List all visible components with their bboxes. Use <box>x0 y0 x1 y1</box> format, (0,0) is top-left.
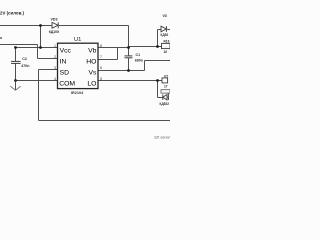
svg-text:10: 10 <box>164 50 168 54</box>
svg-text:680n: 680n <box>135 59 143 63</box>
svg-text:КД52: КД52 <box>161 33 169 37</box>
wire SD vertical <box>38 70 40 121</box>
wire COM rail <box>16 80 58 82</box>
svg-text:Vcc: Vcc <box>60 47 72 54</box>
wire low diode horizontal <box>158 97 164 99</box>
svg-text:C1: C1 <box>136 53 141 57</box>
diode VD3 <box>52 22 58 28</box>
wire Vs jog vertical <box>144 61 146 71</box>
capacitor C2 <box>11 61 21 63</box>
wire IN to pin 2 <box>38 58 58 60</box>
wire C2 top lead <box>15 48 17 62</box>
resistor R bottom-right <box>162 78 168 83</box>
wire bootstrap vertical top to Vb <box>128 26 130 48</box>
svg-text:VD3: VD3 <box>51 18 58 22</box>
wire VD3 cathode to bootstrap corner <box>59 25 129 27</box>
node +12V/Vcc junction <box>39 24 42 27</box>
svg-text:8: 8 <box>100 44 102 48</box>
svg-text:7: 7 <box>100 55 102 59</box>
svg-text:5: 5 <box>100 77 102 81</box>
wire IN jog vertical <box>37 45 39 59</box>
svg-text:Vb: Vb <box>88 47 97 54</box>
svg-text:U1: U1 <box>74 37 81 43</box>
node Vb gate junction <box>156 45 159 48</box>
svg-text:6: 6 <box>100 66 102 70</box>
capacitor C1 <box>125 56 133 58</box>
wire IN input upper <box>0 44 38 46</box>
wire LO rail pin5 <box>98 80 162 82</box>
svg-text:C2: C2 <box>22 57 27 61</box>
node C2 top junction <box>14 46 17 49</box>
node C1/Vs junction <box>127 69 130 72</box>
svg-text:IN: IN <box>60 58 67 65</box>
svg-text:SD senal: SD senal <box>154 136 170 140</box>
wire C2 bottom lead <box>15 63 17 80</box>
svg-text:КД522: КД522 <box>160 102 170 106</box>
svg-text:LO: LO <box>87 81 96 88</box>
ground <box>10 81 20 91</box>
wire C1 top lead <box>128 46 130 56</box>
wire top diode out <box>167 29 170 31</box>
wire top FET source line <box>145 60 171 62</box>
resistor box lower right <box>161 90 170 93</box>
node COM/ground junction <box>14 79 17 82</box>
svg-text:470n: 470n <box>21 64 29 68</box>
svg-text:4: 4 <box>54 77 56 81</box>
svg-text:2: 2 <box>54 55 56 59</box>
diode VD top-right <box>161 26 166 32</box>
svg-text:HO: HO <box>86 58 96 65</box>
svg-text:1: 1 <box>54 44 56 48</box>
wire HO pin7 <box>98 59 118 61</box>
wire top diode feed vertical <box>157 30 159 47</box>
svg-text:IR2104: IR2104 <box>71 91 84 95</box>
wire Vs rail <box>98 70 145 72</box>
svg-text:КД105: КД105 <box>49 30 59 34</box>
svg-text:SD: SD <box>60 70 70 77</box>
svg-text:3: 3 <box>54 66 56 70</box>
node LO gate junction <box>156 79 159 82</box>
junction dots <box>14 24 159 82</box>
wire SD bottom rail <box>39 120 171 122</box>
wire Vcc rail <box>16 47 58 49</box>
svg-text:R16: R16 <box>164 40 170 44</box>
svg-text:Vs: Vs <box>88 70 97 77</box>
wire top diode feed horizontal <box>158 29 162 31</box>
svg-text:VD: VD <box>163 14 168 18</box>
wire HO vertical <box>117 48 119 60</box>
svg-text:VT: VT <box>164 74 168 78</box>
op-amp U1 chip body <box>58 43 99 88</box>
svg-text:2V (силов.): 2V (силов.) <box>0 11 25 16</box>
diode VD bottom-right <box>163 94 169 101</box>
node Vcc vertical junction <box>39 46 42 49</box>
resistor R top-right <box>162 43 171 48</box>
wire vertical +12V to Vcc <box>40 26 42 48</box>
wire C1 bottom lead <box>128 58 130 71</box>
wire SD to pin 3 <box>39 69 58 71</box>
wire low diode vertical <box>157 81 159 98</box>
wire Vb rail right portion <box>129 46 162 48</box>
wire +12V top rail left <box>0 25 52 27</box>
svg-text:17: 17 <box>164 85 168 89</box>
node Vb/C1 junction <box>127 46 130 49</box>
wire Vb rail pin8 to gate resistor <box>98 47 129 49</box>
svg-text:COM: COM <box>59 81 75 88</box>
